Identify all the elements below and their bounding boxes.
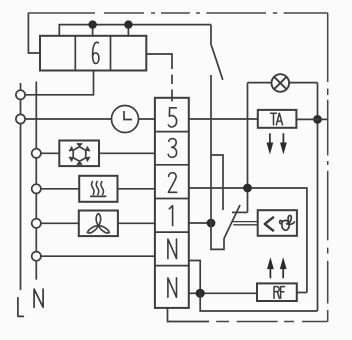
junction dot on cell 2 stub	[88, 20, 96, 28]
wire: terminal N2 stub to dot	[189, 292, 200, 294]
junction dot TA/right edge	[313, 115, 322, 124]
terminal circle N3	[32, 149, 41, 158]
clock hands	[124, 111, 132, 120]
wire: terminal N2 bottom exit to border	[168, 308, 210, 322]
wire: terminal 5 to TA	[189, 118, 258, 120]
N supply line	[35, 82, 37, 280]
wire: lower contact down through dot	[211, 75, 224, 249]
terminal divider 2/1	[155, 198, 189, 200]
junction dot terminal2/lamp branch	[243, 184, 252, 193]
RF up arrows	[267, 258, 286, 278]
terminal divider 5/3	[155, 131, 189, 133]
clock symbol	[112, 106, 139, 133]
lamp symbol	[272, 74, 290, 92]
label 6	[93, 42, 99, 63]
switch S1 vertical from bus	[210, 25, 212, 46]
label TA	[271, 113, 283, 125]
fan box	[79, 211, 118, 237]
terminal circle N4	[32, 184, 41, 193]
label 5	[168, 108, 176, 127]
terminal circle N5	[32, 219, 41, 228]
thermostat box	[258, 210, 297, 236]
wire: RF right up to terminal2 drop	[297, 292, 307, 294]
labels drawn as stroke lettering	[18, 42, 295, 316]
junction dot on cell 3 stub	[124, 20, 132, 28]
junction dot terminal1/switch	[207, 219, 216, 228]
heating box	[79, 176, 117, 202]
label 2	[168, 173, 176, 193]
wire: relay right to dashed drop	[146, 54, 172, 69]
terminal divider 3/2	[155, 164, 189, 166]
label N (terminal)	[168, 239, 177, 258]
wire: circle N4 to heating box	[41, 188, 79, 190]
RF box	[257, 283, 297, 301]
wire: dot to RF left	[200, 292, 257, 294]
terminal divider N/N	[155, 265, 189, 267]
label thermostat theta (script)	[280, 215, 295, 230]
TA down arrows	[267, 133, 287, 153]
dashed drop to terminal 5	[171, 90, 173, 102]
enclosure border right (dash-dot)	[327, 13, 329, 322]
wire: terminal N1 stub	[189, 261, 200, 294]
label 3	[168, 139, 176, 158]
stub to cell 3	[127, 25, 129, 36]
cooling box	[59, 141, 99, 167]
lamp loop right edge down to bottom rail	[317, 83, 319, 311]
thermostat fixed contact tick	[232, 211, 248, 213]
wire: jog to thermostat contact	[211, 155, 223, 210]
wire: fan box to terminal 1	[118, 222, 155, 224]
wire: terminal 1 to switch	[189, 222, 211, 224]
wire: border corner to relay box left	[28, 13, 40, 53]
lamp X	[274, 77, 286, 89]
terminal circle N6	[32, 252, 41, 261]
terminal circle L1	[16, 90, 25, 99]
thermostat switch blade	[224, 205, 240, 239]
dashed drop segment	[171, 75, 173, 85]
enclosure border bottom (dash-dot)	[216, 321, 328, 323]
snowflake icon	[69, 143, 90, 165]
wire: circle N3 to cooling box	[41, 152, 59, 154]
relay box divider 2	[110, 36, 112, 71]
TA box	[258, 110, 297, 128]
wire: contact tick up to junction on terminal2 wire	[247, 83, 249, 213]
wire: cooling box to terminal 3	[99, 152, 155, 154]
label RF	[274, 287, 285, 299]
wire: circle L2 to clock	[25, 118, 111, 120]
thermostat linkage double line	[232, 222, 258, 225]
switch S1 blade	[212, 46, 223, 80]
label L	[18, 298, 24, 317]
wire: TA right to border	[296, 118, 327, 120]
stub to cell 2	[92, 25, 94, 36]
terminal circle L2	[16, 114, 25, 123]
wire: heating box to terminal 2	[118, 188, 156, 190]
label thermostat less-than	[265, 217, 274, 231]
enclosure border top (dash-dot)	[28, 12, 328, 14]
label N (terminal bottom)	[168, 278, 177, 297]
wire: top bus y24.6	[59, 25, 211, 36]
relay box K1 (3 cells)	[40, 36, 146, 71]
lamp loop top with lamp	[248, 82, 318, 84]
terminal divider 1/N	[155, 231, 189, 233]
L supply line	[20, 83, 22, 290]
label 1	[169, 206, 172, 226]
terminal strip outline	[155, 98, 189, 308]
label N (supply)	[34, 289, 43, 307]
fan icon (3 blades)	[87, 214, 109, 233]
wire: relay cell2 bottom to terminal circle L1	[25, 71, 93, 95]
wire: neutral rail around bottom to lamp right edge	[200, 293, 317, 311]
relay box divider 1	[74, 36, 76, 71]
junction dot neutral	[196, 289, 205, 298]
wire: circle N5 to fan box	[41, 222, 79, 224]
wire: clock to terminal 5	[139, 118, 156, 120]
heating icon (3 wavy lines over base)	[90, 181, 106, 196]
wire: circle N6 to terminal N	[41, 255, 155, 257]
wire: terminal 2 to right drop	[189, 188, 307, 293]
